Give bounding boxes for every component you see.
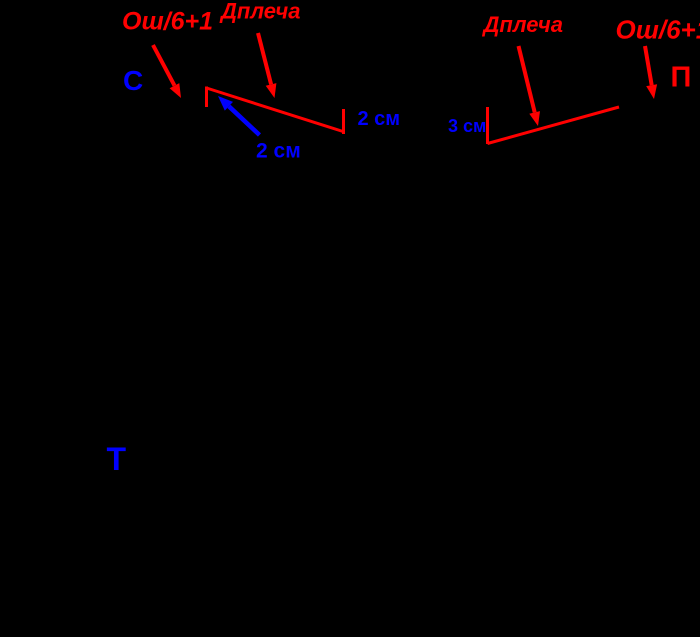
svg-text:Дплеча: Дплеча — [482, 12, 563, 37]
right shoulder slant line — [488, 107, 620, 144]
svg-text:Ош/6+1: Ош/6+1 — [616, 15, 700, 45]
left shoulder slant line — [207, 88, 344, 132]
svg-text:С: С — [123, 65, 143, 96]
arrow from Дплеча (right) — [519, 46, 535, 112]
arrow from Ош/6+1 (left) — [153, 45, 175, 86]
svg-text:П: П — [671, 62, 692, 94]
left shoulder tick (vertical, at neck point) — [205, 87, 208, 108]
blue arrow from 2 см — [229, 106, 260, 135]
left shoulder end tick (2 см) — [342, 109, 345, 134]
svg-text:2 см: 2 см — [358, 108, 401, 130]
svg-text:Ош/6+1: Ош/6+1 — [122, 8, 213, 36]
right shoulder tick (3 см) — [486, 107, 489, 144]
svg-text:3 см: 3 см — [448, 116, 486, 136]
arrow from Дплеча (left) — [258, 33, 271, 84]
svg-text:Т: Т — [107, 441, 127, 477]
svg-text:Дплеча: Дплеча — [219, 0, 300, 24]
arrow from Ош/6+1 (right) — [645, 46, 652, 85]
svg-text:2 см: 2 см — [256, 140, 301, 163]
